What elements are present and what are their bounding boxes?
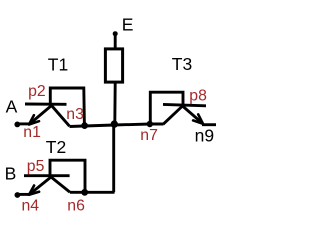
- svg-text:n1: n1: [23, 124, 41, 141]
- svg-text:n9: n9: [195, 125, 214, 145]
- svg-text:A: A: [6, 97, 18, 117]
- svg-text:T1: T1: [48, 54, 68, 74]
- svg-text:p2: p2: [28, 83, 46, 100]
- svg-text:n4: n4: [22, 197, 40, 214]
- svg-text:n3: n3: [66, 106, 84, 123]
- svg-text:n6: n6: [67, 197, 85, 214]
- svg-text:p5: p5: [27, 158, 45, 175]
- svg-text:T2: T2: [46, 137, 66, 157]
- svg-text:p8: p8: [189, 87, 207, 104]
- svg-text:T3: T3: [172, 54, 192, 74]
- svg-text:n7: n7: [140, 127, 158, 144]
- svg-text:E: E: [122, 15, 134, 35]
- svg-text:B: B: [5, 163, 17, 183]
